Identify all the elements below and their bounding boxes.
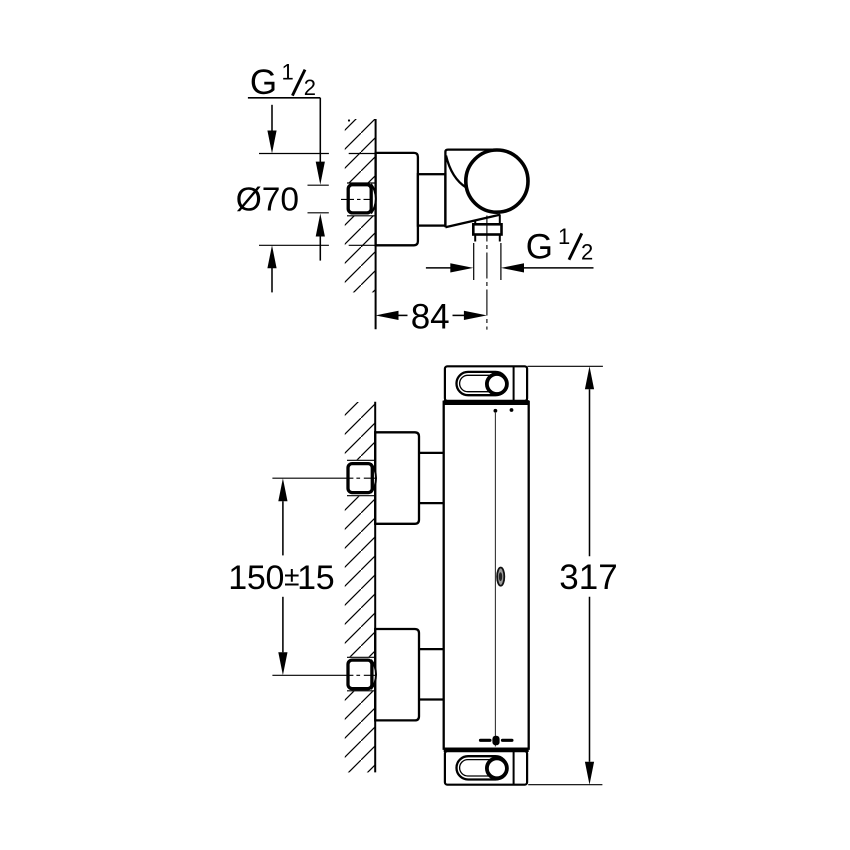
svg-text:Ø70: Ø70: [236, 182, 299, 219]
svg-text:150±15: 150±15: [228, 559, 334, 597]
svg-text:G: G: [250, 63, 277, 102]
svg-text:84: 84: [411, 298, 450, 337]
svg-text:1: 1: [281, 59, 293, 84]
svg-text:1: 1: [558, 224, 570, 249]
svg-text:2: 2: [304, 75, 316, 100]
svg-text:317: 317: [559, 558, 617, 597]
svg-text:G: G: [526, 228, 553, 267]
svg-text:2: 2: [581, 239, 593, 264]
